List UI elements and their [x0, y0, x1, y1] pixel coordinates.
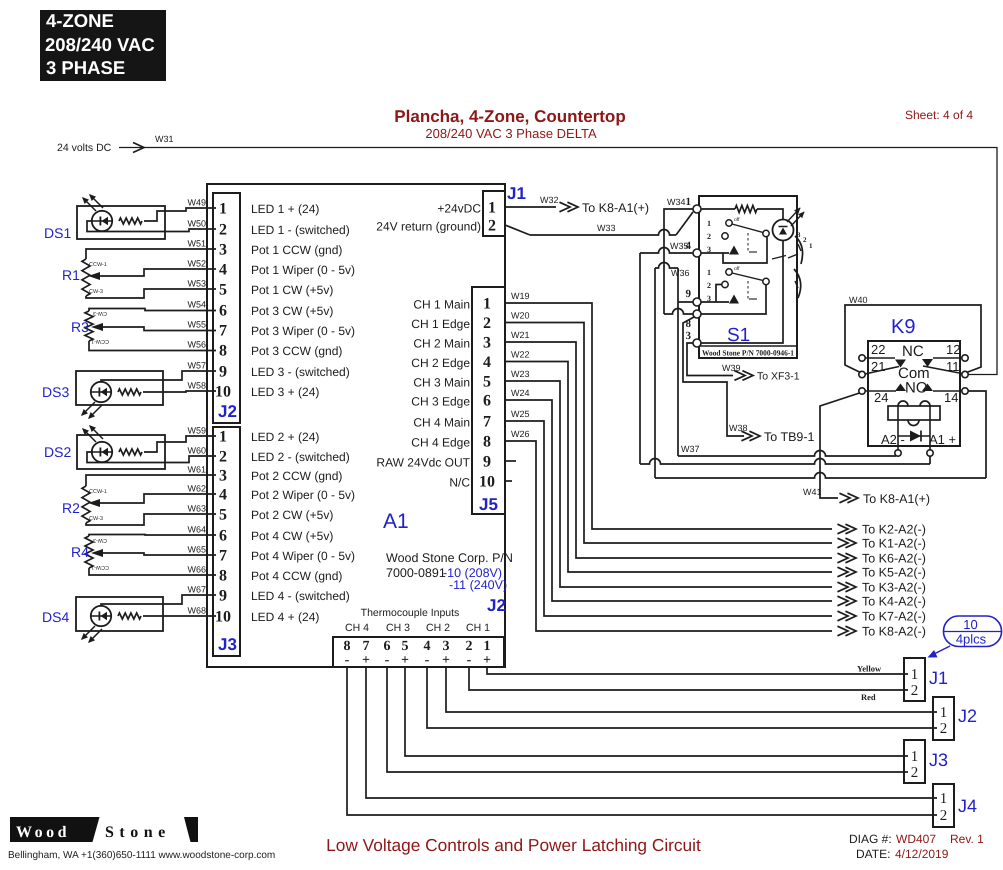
- svg-text:1: 1: [940, 791, 948, 807]
- svg-text:W31: W31: [155, 134, 174, 144]
- svg-text:4/12/2019: 4/12/2019: [895, 847, 949, 861]
- svg-text:3: 3: [797, 231, 801, 239]
- svg-text:3: 3: [443, 639, 450, 654]
- svg-text:W40: W40: [849, 295, 868, 305]
- wire: [76, 371, 163, 405]
- svg-text:1: 1: [488, 200, 496, 217]
- svg-text:W68: W68: [187, 606, 206, 616]
- svg-text:3: 3: [219, 242, 227, 259]
- svg-text:W25: W25: [511, 409, 530, 419]
- svg-text:2: 2: [466, 639, 473, 654]
- svg-text:W32: W32: [540, 195, 559, 205]
- svg-text:9: 9: [686, 288, 692, 300]
- svg-text:+: +: [483, 653, 491, 668]
- svg-text:Stone: Stone: [105, 824, 171, 841]
- svg-text:K9: K9: [891, 316, 915, 338]
- svg-text:-: -: [425, 653, 430, 668]
- svg-text:9: 9: [219, 364, 227, 381]
- svg-text:1: 1: [809, 242, 813, 250]
- svg-text:4-ZONE: 4-ZONE: [46, 10, 114, 31]
- svg-text:2: 2: [483, 315, 491, 332]
- svg-text:W60: W60: [187, 446, 206, 456]
- svg-text:To K6-A2(-): To K6-A2(-): [862, 552, 926, 566]
- svg-text:Pot 3 CCW (gnd): Pot 3 CCW (gnd): [251, 344, 342, 358]
- svg-text:J4: J4: [958, 796, 977, 816]
- svg-text:CH 2: CH 2: [426, 622, 450, 634]
- svg-text:CH 3 Edge: CH 3 Edge: [411, 395, 470, 409]
- svg-text:W19: W19: [511, 291, 530, 301]
- wire: [76, 597, 163, 631]
- pin 21 of K9: [859, 371, 865, 377]
- wire W50: [87, 221, 216, 232]
- pin 22 of K9: [859, 355, 865, 361]
- svg-text:7: 7: [363, 639, 370, 654]
- svg-text:12: 12: [946, 342, 960, 357]
- pin 12 of K9: [962, 355, 968, 361]
- svg-text:W22: W22: [511, 350, 530, 360]
- wire thermocouple 3: [446, 667, 937, 712]
- svg-text:2: 2: [219, 222, 227, 239]
- title block: 4-ZONE 208/240 VAC 3 PHASE: [40, 10, 166, 81]
- wire: [77, 206, 165, 239]
- svg-text:CW-3: CW-3: [89, 516, 103, 522]
- Wood Stone logo: [10, 817, 100, 842]
- rocker actuator (S1): [795, 236, 803, 264]
- wire thermocouple 1: [487, 667, 908, 674]
- pin 3 of S1: [693, 339, 701, 347]
- svg-text:W62: W62: [187, 484, 206, 494]
- svg-text:R1: R1: [62, 267, 80, 283]
- switch S1 outline: [699, 196, 797, 358]
- svg-text:Pot 2 CW (+5v): Pot 2 CW (+5v): [251, 508, 333, 522]
- svg-text:208/240 VAC 3 Phase DELTA: 208/240 VAC 3 Phase DELTA: [425, 126, 597, 141]
- svg-text:6: 6: [384, 639, 391, 654]
- svg-text:off: off: [734, 266, 740, 272]
- S1 part number box: [699, 346, 797, 358]
- svg-text:Pot 3 Wiper (0 - 5v): Pot 3 Wiper (0 - 5v): [251, 324, 355, 338]
- connector J4 (zone harness): [933, 784, 954, 827]
- svg-text:R4: R4: [71, 544, 89, 560]
- svg-text:Pot 1 CW (+5v): Pot 1 CW (+5v): [251, 283, 333, 297]
- wire (S1 pin4 to pole1): [701, 252, 729, 254]
- wire W59: [144, 436, 216, 452]
- svg-text:CCW-1: CCW-1: [89, 489, 107, 495]
- svg-text:3: 3: [483, 335, 491, 352]
- svg-text:1: 1: [483, 296, 491, 313]
- svg-text:W59: W59: [187, 426, 206, 436]
- svg-text:7: 7: [483, 414, 491, 431]
- svg-text:2: 2: [488, 218, 496, 235]
- svg-text:CH 1 Edge: CH 1 Edge: [411, 317, 470, 331]
- relay coil K9: [888, 406, 940, 420]
- svg-text:Plancha, 4-Zone, Countertop: Plancha, 4-Zone, Countertop: [394, 107, 625, 126]
- svg-text:DATE:: DATE:: [856, 847, 890, 861]
- svg-text:LED 4 + (24): LED 4 + (24): [251, 610, 319, 624]
- svg-text:10: 10: [963, 617, 977, 632]
- svg-text:Yellow: Yellow: [857, 664, 882, 674]
- pin 14 of K9: [962, 388, 968, 394]
- svg-text:24: 24: [874, 390, 888, 405]
- svg-text:WD407: WD407: [896, 832, 936, 846]
- connector J3 (zone harness): [904, 740, 925, 783]
- svg-text:Pot 2 CCW (gnd): Pot 2 CCW (gnd): [251, 469, 342, 483]
- pin 11 of K9: [962, 371, 968, 377]
- wire W53: [86, 289, 216, 298]
- wire W54: [89, 309, 216, 312]
- wire thermocouple 6: [387, 667, 908, 772]
- svg-text:9: 9: [219, 588, 227, 605]
- wire W35 to A1+: [640, 459, 930, 464]
- callout balloon 10 4plcs: [944, 616, 1002, 647]
- connector J5 (A1 right): [472, 287, 505, 514]
- connector J2 (zone harness): [933, 697, 954, 740]
- svg-text:4: 4: [483, 354, 491, 371]
- svg-text:W57: W57: [187, 361, 206, 371]
- svg-text:W34: W34: [667, 197, 686, 207]
- svg-text:Bellingham, WA +1(360)650-1111: Bellingham, WA +1(360)650-1111 www.woods…: [8, 850, 275, 861]
- svg-text:To K1-A2(-): To K1-A2(-): [862, 537, 926, 551]
- svg-text:DS4: DS4: [42, 609, 69, 625]
- wire W62: [100, 494, 216, 503]
- svg-text:Wood Stone P/N 7000-0946-1: Wood Stone P/N 7000-0946-1: [702, 349, 794, 358]
- svg-text:W35: W35: [670, 241, 689, 251]
- resistor (S1 internal): [701, 208, 735, 210]
- wire thermocouple 5: [405, 667, 908, 756]
- svg-text:2: 2: [940, 808, 948, 824]
- svg-text:CW-3: CW-3: [93, 310, 107, 316]
- svg-text:3: 3: [219, 468, 227, 485]
- svg-text:Pot 1 Wiper (0 - 5v): Pot 1 Wiper (0 - 5v): [251, 263, 355, 277]
- svg-text:Pot 4 CW (+5v): Pot 4 CW (+5v): [251, 529, 333, 543]
- svg-text:CH 2 Edge: CH 2 Edge: [411, 356, 470, 370]
- svg-text:NC: NC: [902, 343, 924, 360]
- wire W55: [103, 327, 216, 331]
- svg-text:To K8-A1(+): To K8-A1(+): [582, 201, 649, 215]
- svg-text:W21: W21: [511, 330, 530, 340]
- svg-text:DIAG #:: DIAG #:: [849, 832, 892, 846]
- wire W58: [143, 391, 216, 392]
- svg-text:Sheet: 4 of 4: Sheet: 4 of 4: [905, 108, 973, 122]
- wire W64: [89, 535, 216, 537]
- svg-text:W36: W36: [671, 268, 690, 278]
- svg-text:Pot 1 CCW (gnd): Pot 1 CCW (gnd): [251, 243, 342, 257]
- svg-text:5: 5: [219, 507, 227, 524]
- svg-text:6: 6: [219, 303, 227, 320]
- svg-text:W38: W38: [729, 423, 748, 433]
- svg-text:To K7-A2(-): To K7-A2(-): [862, 610, 926, 624]
- svg-text:6: 6: [219, 528, 227, 545]
- svg-text:W50: W50: [187, 219, 206, 229]
- svg-text:Red: Red: [861, 692, 876, 702]
- svg-text:W55: W55: [187, 320, 206, 330]
- svg-text:W49: W49: [187, 198, 206, 208]
- svg-text:4plcs: 4plcs: [956, 632, 987, 647]
- svg-text:7000-0891: 7000-0891: [386, 566, 446, 580]
- wire W68: [143, 615, 216, 617]
- svg-text:5: 5: [219, 282, 227, 299]
- svg-text:J3: J3: [929, 750, 948, 770]
- svg-text:To K2-A2(-): To K2-A2(-): [862, 523, 926, 537]
- svg-text:A1: A1: [383, 510, 409, 533]
- svg-text:7: 7: [219, 548, 227, 565]
- svg-text:R2: R2: [62, 500, 80, 516]
- svg-text:A1 +: A1 +: [929, 432, 956, 447]
- svg-text:6: 6: [483, 393, 491, 410]
- svg-text:To TB9-1: To TB9-1: [764, 430, 815, 444]
- svg-text:LED 3 - (switched): LED 3 - (switched): [251, 365, 350, 379]
- svg-text:J2: J2: [487, 596, 506, 615]
- svg-text:CH 4 Edge: CH 4 Edge: [411, 436, 470, 450]
- svg-text:J5: J5: [479, 495, 498, 514]
- svg-text:CW-3: CW-3: [93, 537, 107, 543]
- svg-text:W61: W61: [187, 465, 206, 475]
- svg-text:-: -: [385, 653, 390, 668]
- pin 1 of S1: [693, 205, 701, 213]
- svg-text:W66: W66: [187, 565, 206, 575]
- svg-text:J2: J2: [958, 706, 977, 726]
- svg-text:+24vDC: +24vDC: [437, 202, 481, 216]
- svg-text:Rev. 1: Rev. 1: [950, 832, 984, 846]
- svg-text:Wood: Wood: [16, 824, 70, 841]
- wire W61: [86, 475, 216, 486]
- wire W57: [101, 371, 216, 382]
- svg-text:LED 4 - (switched): LED 4 - (switched): [251, 589, 350, 603]
- svg-text:J1: J1: [507, 184, 526, 203]
- wire W49: [144, 208, 216, 221]
- svg-text:To K8-A2(-): To K8-A2(-): [862, 625, 926, 639]
- svg-text:LED 1 - (switched): LED 1 - (switched): [251, 223, 350, 237]
- svg-text:W52: W52: [187, 259, 206, 269]
- coil diode: [898, 435, 930, 437]
- svg-text:1: 1: [219, 429, 227, 446]
- svg-text:W54: W54: [187, 300, 206, 310]
- svg-text:N/C: N/C: [449, 476, 470, 490]
- svg-text:W33: W33: [597, 223, 616, 233]
- wire W52: [100, 269, 216, 276]
- svg-text:1: 1: [940, 705, 948, 721]
- svg-text:LED 1 + (24): LED 1 + (24): [251, 202, 319, 216]
- svg-text:+: +: [362, 653, 370, 668]
- svg-text:2: 2: [707, 281, 711, 290]
- wire W60: [87, 452, 216, 463]
- svg-text:7: 7: [219, 323, 227, 340]
- svg-text:LED 2 - (switched): LED 2 - (switched): [251, 450, 350, 464]
- svg-text:CH 1 Main: CH 1 Main: [413, 298, 470, 312]
- svg-text:NO: NO: [905, 380, 928, 397]
- svg-text:R3: R3: [71, 319, 89, 335]
- controller A1 outline: [207, 184, 505, 667]
- svg-text:J3: J3: [218, 635, 237, 654]
- wire (LED cathode to pin 3): [701, 241, 783, 344]
- svg-text:W20: W20: [511, 311, 530, 321]
- potentiometer R1: [82, 259, 90, 296]
- svg-text:-: -: [345, 653, 350, 668]
- svg-text:Pot 4 CCW (gnd): Pot 4 CCW (gnd): [251, 569, 342, 583]
- svg-text:22: 22: [871, 342, 885, 357]
- svg-text:W26: W26: [511, 429, 530, 439]
- wire W56: [89, 341, 216, 351]
- svg-text:4: 4: [424, 639, 431, 654]
- svg-text:208/240 VAC: 208/240 VAC: [45, 34, 155, 55]
- svg-text:8: 8: [219, 343, 227, 360]
- pin 24 of K9: [859, 388, 865, 394]
- svg-text:-: -: [467, 653, 472, 668]
- svg-text:2: 2: [219, 449, 227, 466]
- svg-text:CH 4 Main: CH 4 Main: [413, 416, 470, 430]
- svg-text:J2: J2: [218, 402, 237, 421]
- svg-text:1: 1: [484, 639, 491, 654]
- svg-text:24 volts DC: 24 volts DC: [57, 142, 112, 154]
- svg-text:14: 14: [944, 390, 958, 405]
- svg-text:10: 10: [215, 384, 231, 401]
- svg-text:W23: W23: [511, 369, 530, 379]
- svg-text:Thermocouple Inputs: Thermocouple Inputs: [361, 607, 460, 619]
- svg-text:-11 (240V): -11 (240V): [449, 578, 507, 592]
- svg-text:To K8-A1(+): To K8-A1(+): [863, 492, 930, 506]
- svg-text:4: 4: [219, 262, 227, 279]
- svg-text:8: 8: [219, 568, 227, 585]
- svg-text:9: 9: [483, 454, 491, 471]
- connector J1 (A1 top right): [483, 191, 505, 236]
- wire thermocouple 7: [366, 667, 937, 798]
- connector J3 (A1 left bottom): [213, 427, 240, 656]
- svg-text:1: 1: [911, 667, 919, 683]
- pin stub 10 of J5: [505, 480, 512, 482]
- svg-text:W56: W56: [187, 340, 206, 350]
- svg-text:CH 4: CH 4: [345, 622, 369, 634]
- wire W66: [89, 568, 216, 575]
- svg-text:1: 1: [911, 749, 919, 765]
- svg-text:W41: W41: [803, 487, 822, 497]
- svg-text:CH 3 Main: CH 3 Main: [413, 376, 470, 390]
- svg-text:10: 10: [479, 474, 495, 491]
- svg-text:CH 3: CH 3: [386, 622, 410, 634]
- svg-text:DS2: DS2: [44, 444, 71, 460]
- wire thermocouple 4: [427, 667, 937, 728]
- svg-text:A2 -: A2 -: [881, 432, 905, 447]
- relay K9 outline: [868, 341, 960, 446]
- potentiometer R2: [82, 486, 90, 523]
- svg-text:DS1: DS1: [44, 225, 71, 241]
- svg-text:2: 2: [707, 232, 711, 241]
- svg-text:1: 1: [219, 201, 227, 218]
- svg-text:RAW 24Vdc OUT: RAW 24Vdc OUT: [376, 456, 470, 470]
- svg-text:2: 2: [803, 236, 807, 244]
- svg-text:To XF3-1: To XF3-1: [757, 371, 800, 383]
- svg-text:3 PHASE: 3 PHASE: [46, 57, 125, 78]
- wire thermocouple 2: [469, 667, 908, 690]
- svg-text:To K3-A2(-): To K3-A2(-): [862, 581, 926, 595]
- svg-text:W65: W65: [187, 545, 206, 555]
- svg-text:W63: W63: [187, 504, 206, 514]
- svg-text:5: 5: [402, 639, 409, 654]
- wire (S1 pin9 to pole2): [701, 301, 729, 303]
- svg-text:off: off: [734, 217, 740, 223]
- pin stub 9 of J5: [505, 460, 516, 462]
- svg-text:To K5-A2(-): To K5-A2(-): [862, 566, 926, 580]
- wire W36 to pin 14: [655, 473, 986, 478]
- svg-text:Pot 2 Wiper (0 - 5v): Pot 2 Wiper (0 - 5v): [251, 488, 355, 502]
- svg-text:W64: W64: [187, 525, 206, 535]
- svg-text:Pot 3 CW (+5v): Pot 3 CW (+5v): [251, 304, 333, 318]
- wire W67: [101, 595, 216, 606]
- wire: [77, 435, 165, 469]
- pin 4 of S1: [693, 249, 701, 257]
- svg-text:+: +: [401, 653, 409, 668]
- svg-text:2: 2: [911, 765, 919, 781]
- svg-text:W24: W24: [511, 388, 530, 398]
- svg-text:1: 1: [707, 219, 711, 228]
- potentiometer R4: [85, 536, 93, 568]
- svg-text:CCW-1: CCW-1: [89, 262, 107, 268]
- connector J2 (A1 left top): [213, 193, 240, 423]
- svg-text:2: 2: [940, 721, 948, 737]
- wire thermocouple 8: [347, 667, 937, 815]
- svg-text:CCW-1: CCW-1: [91, 564, 109, 570]
- wire (pole2 common to S1 pin8): [701, 285, 766, 314]
- svg-text:4: 4: [219, 487, 227, 504]
- svg-text:DS3: DS3: [42, 384, 69, 400]
- svg-text:CCW-1: CCW-1: [91, 338, 109, 344]
- svg-text:W51: W51: [187, 239, 206, 249]
- svg-text:CW-3: CW-3: [89, 289, 103, 295]
- pin 9 of S1: [693, 298, 701, 306]
- svg-text:W67: W67: [187, 585, 206, 595]
- svg-text:J1: J1: [929, 668, 948, 688]
- LED (S1 internal): [773, 220, 794, 241]
- svg-text:8: 8: [483, 434, 491, 451]
- svg-text:1: 1: [686, 196, 692, 208]
- svg-text:To K4-A2(-): To K4-A2(-): [862, 595, 926, 609]
- svg-text:Low Voltage Controls and Power: Low Voltage Controls and Power Latching …: [326, 835, 701, 855]
- potentiometer R3: [85, 311, 93, 341]
- wire W63: [86, 514, 216, 525]
- svg-text:Wood Stone Corp. P/N: Wood Stone Corp. P/N: [386, 551, 513, 565]
- svg-text:10: 10: [215, 609, 231, 626]
- svg-text:24V return (ground): 24V return (ground): [376, 220, 481, 234]
- svg-text:LED 3 + (24): LED 3 + (24): [251, 385, 319, 399]
- svg-text:W58: W58: [187, 381, 206, 391]
- svg-text:CH 2 Main: CH 2 Main: [413, 337, 470, 351]
- svg-text:+: +: [442, 653, 450, 668]
- svg-text:8: 8: [344, 639, 351, 654]
- svg-text:W53: W53: [187, 279, 206, 289]
- svg-text:5: 5: [483, 374, 491, 391]
- connector J1 (zone harness): [904, 658, 925, 701]
- svg-text:Pot 4 Wiper (0 - 5v): Pot 4 Wiper (0 - 5v): [251, 549, 355, 563]
- wire W51: [86, 249, 216, 259]
- wire W65: [103, 553, 216, 555]
- svg-text:CH 1: CH 1: [466, 622, 490, 634]
- svg-text:3: 3: [686, 330, 692, 342]
- mechanical link (dashed): [747, 233, 749, 252]
- svg-text:W37: W37: [681, 444, 700, 454]
- svg-text:1: 1: [707, 268, 711, 277]
- pin 8 of S1: [693, 310, 701, 318]
- svg-text:2: 2: [911, 683, 919, 699]
- svg-text:LED 2 + (24): LED 2 + (24): [251, 430, 319, 444]
